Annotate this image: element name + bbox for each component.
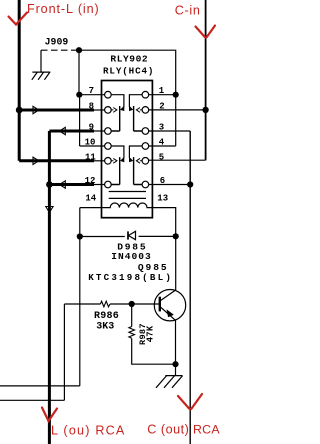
red arrow C-in [196,26,216,38]
svg-text:3: 3 [159,123,164,133]
wire row 5 [149,159,206,161]
arrow L-rail down [46,207,53,213]
relay box RLY902 [102,81,153,218]
svg-text:13: 13 [157,194,168,204]
wire pin7 drop [78,50,80,94]
svg-text:KTC3198(BL): KTC3198(BL) [88,272,173,283]
svg-text:RLY(HC4): RLY(HC4) [103,65,154,76]
svg-text:RLY902: RLY902 [110,53,148,64]
wire control vertical [63,304,65,400]
svg-text:RCA: RCA [193,422,220,436]
wire collector vertical [175,236,177,290]
node base junction [129,301,135,307]
wire row 1 [149,94,176,96]
svg-text:5: 5 [159,152,164,162]
wire thick row 12 [49,183,94,186]
transistor Q985 [154,290,185,321]
relay contact circles left column [105,91,112,98]
svg-text:Front-L (in): Front-L (in) [27,2,100,16]
wire Front-L rail thick vertical [18,0,21,161]
contact pole1 left NC lead [111,95,124,107]
svg-text:J909: J909 [45,36,69,47]
wire row 10 [80,145,105,147]
svg-text:10: 10 [85,138,96,148]
wire control to left edge [0,399,64,401]
arrow row12 left [60,181,66,188]
svg-text:6: 6 [160,176,165,186]
wire C-in rail [205,0,207,160]
wire row 2 [149,109,206,111]
wire R986 right lead to base [110,303,132,305]
svg-text:IN4003: IN4003 [111,251,152,262]
wire R986 left lead [64,303,100,305]
wire J909 net top [79,50,176,94]
wire +B to left edge [0,385,80,387]
svg-text:47K: 47K [146,325,156,342]
contact pole2 right NC lead [129,146,142,158]
red arrow Front-L [9,13,28,25]
contact pole2 left bar and NO lead [111,157,120,184]
node row2 C-in junction [202,107,208,113]
red annotations [9,13,216,422]
contact pole1 right bar and NO lead [134,106,143,131]
svg-text:8: 8 [89,101,94,111]
relay coil [102,203,153,208]
wire row 12 thin tail [93,184,105,186]
resistor R987 [129,327,135,339]
svg-text:4: 4 [159,138,165,148]
wire row 9 thin tail [93,130,105,132]
wire thick row 11 [19,159,94,162]
contact pole2 right bar and NO lead [134,157,143,184]
contact pole2 left NC arrow [121,158,124,162]
wire R987 bottom lead [132,339,176,365]
relay contact circles right column [142,91,149,98]
contact pole2 right NC arrow [129,158,132,162]
contact pole1 right wiper arrow [136,108,142,113]
contact pole1 right NC lead [129,95,142,107]
node row12 L junction [46,181,53,188]
node row1 junction [173,92,179,98]
node row7 junction [76,92,82,98]
wire row 13 [152,208,175,237]
wire row 11 thin tail [93,160,105,162]
wire row 14 [80,207,102,209]
red arrow C out [178,394,202,409]
svg-text:11: 11 [85,152,96,162]
ground emitter [156,376,183,388]
svg-text:R986: R986 [94,311,119,322]
contact pole2 left wiper arrow [111,158,117,163]
svg-text:2: 2 [159,101,164,111]
wire base [132,303,160,305]
diode D985 [128,231,136,239]
node row6 C-out junction [187,181,193,187]
wire row 8 thin tail [93,109,105,111]
wire thick row 9 [49,130,94,133]
wire row 7 [79,94,105,96]
arrow row8 right [33,106,39,113]
svg-text:C-in: C-in [175,3,201,17]
node J909 junction [76,47,82,53]
node Front-L row8 junction [16,107,23,114]
wire pin7-pin10 vertical [79,95,81,146]
wire ground stub J909 [40,50,42,72]
wire C-out vertical [189,131,191,444]
svg-text:L (ou) RCA: L (ou) RCA [51,423,126,437]
svg-text:1: 1 [159,86,165,96]
wire J909 dashed [41,49,79,51]
svg-text:12: 12 [85,176,96,186]
red arrow L out [42,408,57,422]
wire emitter vertical [175,321,177,376]
relay armature lines [109,192,146,199]
contact pole1 left NC arrow [121,107,124,111]
wire L-out rail thick vertical [48,131,51,444]
svg-text:9: 9 [89,123,94,133]
contact pole1 left bar and NO lead [111,106,120,131]
wire R987 top lead [131,304,133,327]
node diode right junction [173,233,179,239]
contact pole1 right NC arrow [129,107,132,111]
contact pole2 left NC lead [111,146,124,158]
svg-text:C (out): C (out) [147,422,189,436]
contact pole2 right wiper arrow [136,158,142,163]
wire pin1-pin4 vertical [175,95,177,146]
arrow row9 left [60,127,66,134]
svg-text:14: 14 [85,194,96,204]
svg-text:7: 7 [89,86,94,96]
node diode left junction [77,233,83,239]
node emitter junction [172,361,178,367]
wire thick row 8 [19,109,94,112]
svg-text:3K3: 3K3 [96,321,114,332]
wire diode row [80,235,176,237]
contact pole1 left wiper arrow [111,108,117,113]
arrow row11 right [33,157,39,164]
wire row 6 [149,184,191,186]
resistor R986 [100,301,110,307]
wire +B vertical [79,208,81,386]
wire row 4 [149,145,176,147]
ground J909 [32,72,51,80]
wire row 3 [149,130,191,132]
